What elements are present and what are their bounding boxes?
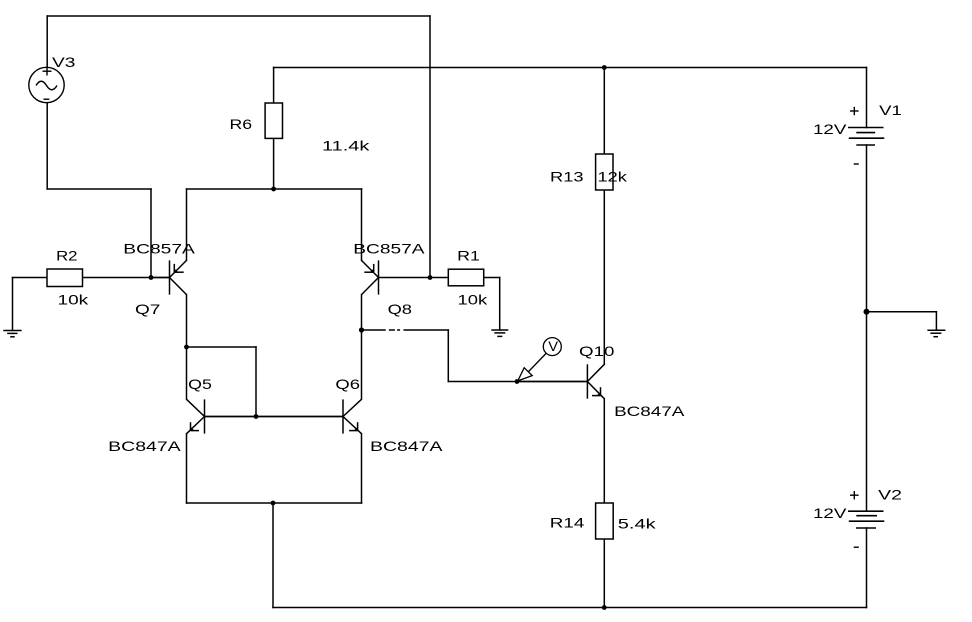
svg-text:12V: 12V	[813, 121, 847, 137]
svg-text:V2: V2	[878, 486, 902, 502]
svg-text:V3: V3	[52, 54, 76, 70]
svg-text:R13: R13	[550, 169, 584, 185]
svg-text:Q8: Q8	[388, 301, 413, 317]
svg-text:V1: V1	[879, 102, 902, 118]
svg-text:Q7: Q7	[135, 301, 161, 317]
svg-text:V: V	[548, 338, 558, 354]
svg-text:R6: R6	[230, 116, 253, 132]
svg-text:BC857A: BC857A	[353, 241, 425, 257]
svg-text:BC847A: BC847A	[370, 438, 443, 454]
svg-text:BC857A: BC857A	[123, 241, 195, 257]
svg-text:Q5: Q5	[188, 376, 212, 392]
svg-text:10k: 10k	[58, 292, 90, 308]
svg-text:R1: R1	[457, 247, 480, 263]
svg-text:10k: 10k	[458, 291, 489, 307]
svg-text:Q10: Q10	[579, 343, 615, 359]
svg-text:Q6: Q6	[335, 376, 360, 392]
svg-text:BC847A: BC847A	[614, 403, 685, 419]
svg-text:R14: R14	[550, 514, 585, 530]
svg-text:12k: 12k	[598, 169, 629, 185]
svg-text:5.4k: 5.4k	[618, 515, 657, 531]
svg-text:11.4k: 11.4k	[322, 138, 371, 154]
svg-text:12V: 12V	[813, 505, 847, 521]
svg-text:BC847A: BC847A	[108, 438, 181, 454]
svg-text:R2: R2	[56, 247, 78, 263]
